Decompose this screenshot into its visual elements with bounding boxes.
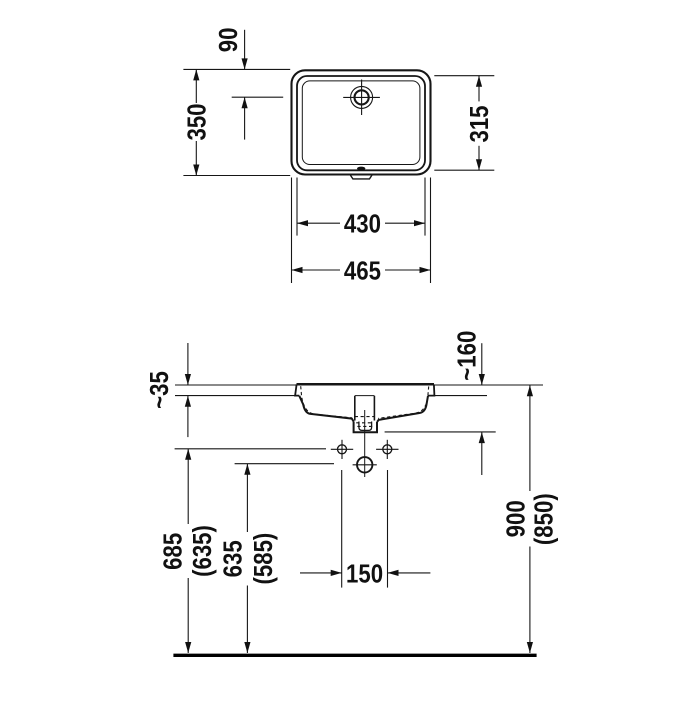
bowl outer profile left [299,396,353,422]
overflow channel top edge [355,395,375,397]
hidden inner bowl contour left (dashed) [301,386,352,418]
floor line [173,654,536,657]
rim underside line right [434,395,487,397]
tap hole crosshair vertical [361,80,363,116]
basin outer rim (plan view) [292,70,431,174]
arrowheads 685 [185,449,191,460]
svg-text:900: 900 [502,500,531,537]
svg-text:(635): (635) [188,525,217,577]
svg-text:430: 430 [344,210,381,239]
rim underside line left [175,395,295,397]
extension line fixing hole left [341,470,343,588]
dimension line 150 left [300,572,342,574]
arrowheads 635 [244,464,250,475]
tap hole crosshair horizontal [343,96,380,98]
fixing hole left circle [338,445,347,454]
hidden inner bowl contour right (dashed) [378,386,429,418]
extension line inner top (plan right) [434,75,494,77]
drain outlet flange [354,421,377,432]
bowl outer profile right [377,396,428,422]
svg-text:465: 465 [344,257,381,286]
hidden overflow line 1 (dashed) [355,416,375,418]
extension line top edge (plan) [183,68,290,70]
basin rim left edge [295,384,299,395]
vertical centreline [364,410,366,477]
tap hole inner circle (plan view) [355,90,369,104]
dimension line 90 lower tail [244,97,246,139]
extension line bottom edge (plan) [183,175,290,177]
extension line fixing hole right [387,470,389,588]
drain hole circle [357,457,372,472]
dimension line 315 [478,76,480,102]
extension line inner left (plan bottom) [296,178,298,236]
svg-text:(850): (850) [530,493,559,545]
mounting tab at bottom of plan view [350,175,372,179]
dimension line 430 [297,222,340,224]
svg-text:~160: ~160 [453,331,482,381]
extension line outlet bottom [385,431,496,433]
fixing hole right crosshair [376,448,398,450]
drain hole crosshair horizontal [353,464,377,466]
overflow slot (plan view) [357,167,365,170]
extension line outer left (plan bottom) [291,178,293,284]
basin inner bowl edge (plan view) [302,81,420,165]
hidden overflow line 2 (dashed) [356,422,373,424]
overflow channel right wall [373,396,375,421]
extension line fixing holes [175,448,326,450]
svg-text:(585): (585) [249,533,278,585]
dimension line ~35 upper tail [187,343,189,385]
dimension line 90 upper tail [244,30,246,70]
arrowheads 350 [193,69,199,80]
drain outlet inner bore [359,422,372,431]
dimension line 465 [292,269,341,271]
arrowhead ~160 up [479,432,485,443]
arrowheads 900 [527,385,533,396]
dimension line ~35 lower tail [187,396,189,437]
arrowhead ~35 down [185,374,191,385]
arrowhead 90 down [242,58,248,69]
svg-text:635: 635 [219,540,248,577]
counter/rim top line [175,384,543,386]
overflow channel left wall [354,396,356,421]
arrowhead 150 right-pointing [331,570,342,576]
dimension line 350 [195,69,197,103]
arrowheads 315 [476,76,482,87]
arrowheads 465 [292,267,303,273]
svg-text:150: 150 [346,560,383,589]
svg-text:350: 350 [183,103,212,140]
basin rim top (elevation) [297,383,435,385]
fixing hole left crosshair [331,448,353,450]
dimension line 685 [187,449,189,524]
extension line outer right (plan bottom) [430,178,432,284]
svg-text:~35: ~35 [145,371,174,409]
fixing hole right circle [383,445,392,454]
basin middle rim edge (plan view) [297,76,425,170]
basin rim right edge [428,384,434,395]
dimension line 900 [529,385,531,491]
hidden outlet line (dashed) [357,425,372,427]
svg-text:685: 685 [159,533,188,570]
arrowhead ~160 down [479,374,485,385]
dimension line ~160 upper tail [481,343,483,385]
extension line tap hole centre (plan) [232,96,284,98]
dimension line 635 [246,464,248,532]
extension line drain centre [235,463,334,465]
extension line inner right (plan bottom) [424,178,426,236]
arrowhead 150 left-pointing [388,570,399,576]
arrowhead ~35 up [185,396,191,407]
svg-text:315: 315 [465,105,494,142]
dimension line 150 right [388,572,431,574]
svg-text:90: 90 [215,28,244,53]
arrowheads 430 [297,220,308,226]
extension line inner bottom (plan right) [434,169,494,171]
arrowhead 90 up [242,97,248,108]
dimension line ~160 lower tail [481,432,483,475]
tap hole outer circle (plan view) [351,86,373,108]
